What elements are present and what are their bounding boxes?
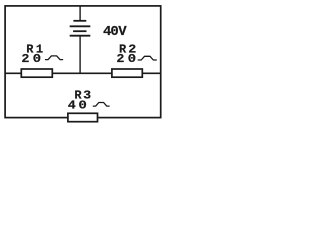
ohm symbol for R1	[46, 56, 63, 60]
label 20 (R2 value)	[116, 52, 136, 66]
resistor R1 body (box on middle wire, left)	[21, 69, 52, 77]
svg-text:0: 0	[78, 99, 87, 113]
svg-text:2: 2	[21, 52, 29, 66]
svg-text:0: 0	[128, 52, 137, 66]
label R1 (designator)	[26, 43, 43, 57]
label 40 (R3 value)	[68, 98, 87, 112]
svg-text:0: 0	[33, 52, 42, 66]
ohm symbol for R3	[93, 103, 109, 107]
wire : middle horizontal line (node between R1, R2, battery)	[5, 72, 161, 74]
svg-text:4: 4	[68, 98, 76, 112]
svg-text:V: V	[118, 24, 127, 40]
battery V1 plate 3 (short)	[73, 30, 86, 32]
label 20 (R1 value)	[21, 52, 41, 66]
resistor R3 body (box on bottom wire, center)	[68, 113, 98, 121]
label R3 (designator)	[74, 88, 91, 102]
outer circuit loop wire (border rectangle)	[5, 6, 161, 118]
battery V1 plate 2 (long)	[70, 25, 91, 27]
ohm symbol for R2	[138, 56, 156, 60]
battery V1 bottom lead wire to middle node	[79, 36, 81, 74]
resistor R2 body (box on middle wire, right)	[112, 69, 142, 77]
battery V1 top lead wire	[79, 6, 81, 21]
svg-text:2: 2	[116, 52, 124, 66]
battery V1 plate 4 (long, bottom)	[70, 35, 91, 37]
label R2 (designator)	[119, 42, 136, 56]
battery V1 plate 1 (short, top)	[73, 20, 86, 22]
label 40V (battery value)	[103, 24, 127, 40]
